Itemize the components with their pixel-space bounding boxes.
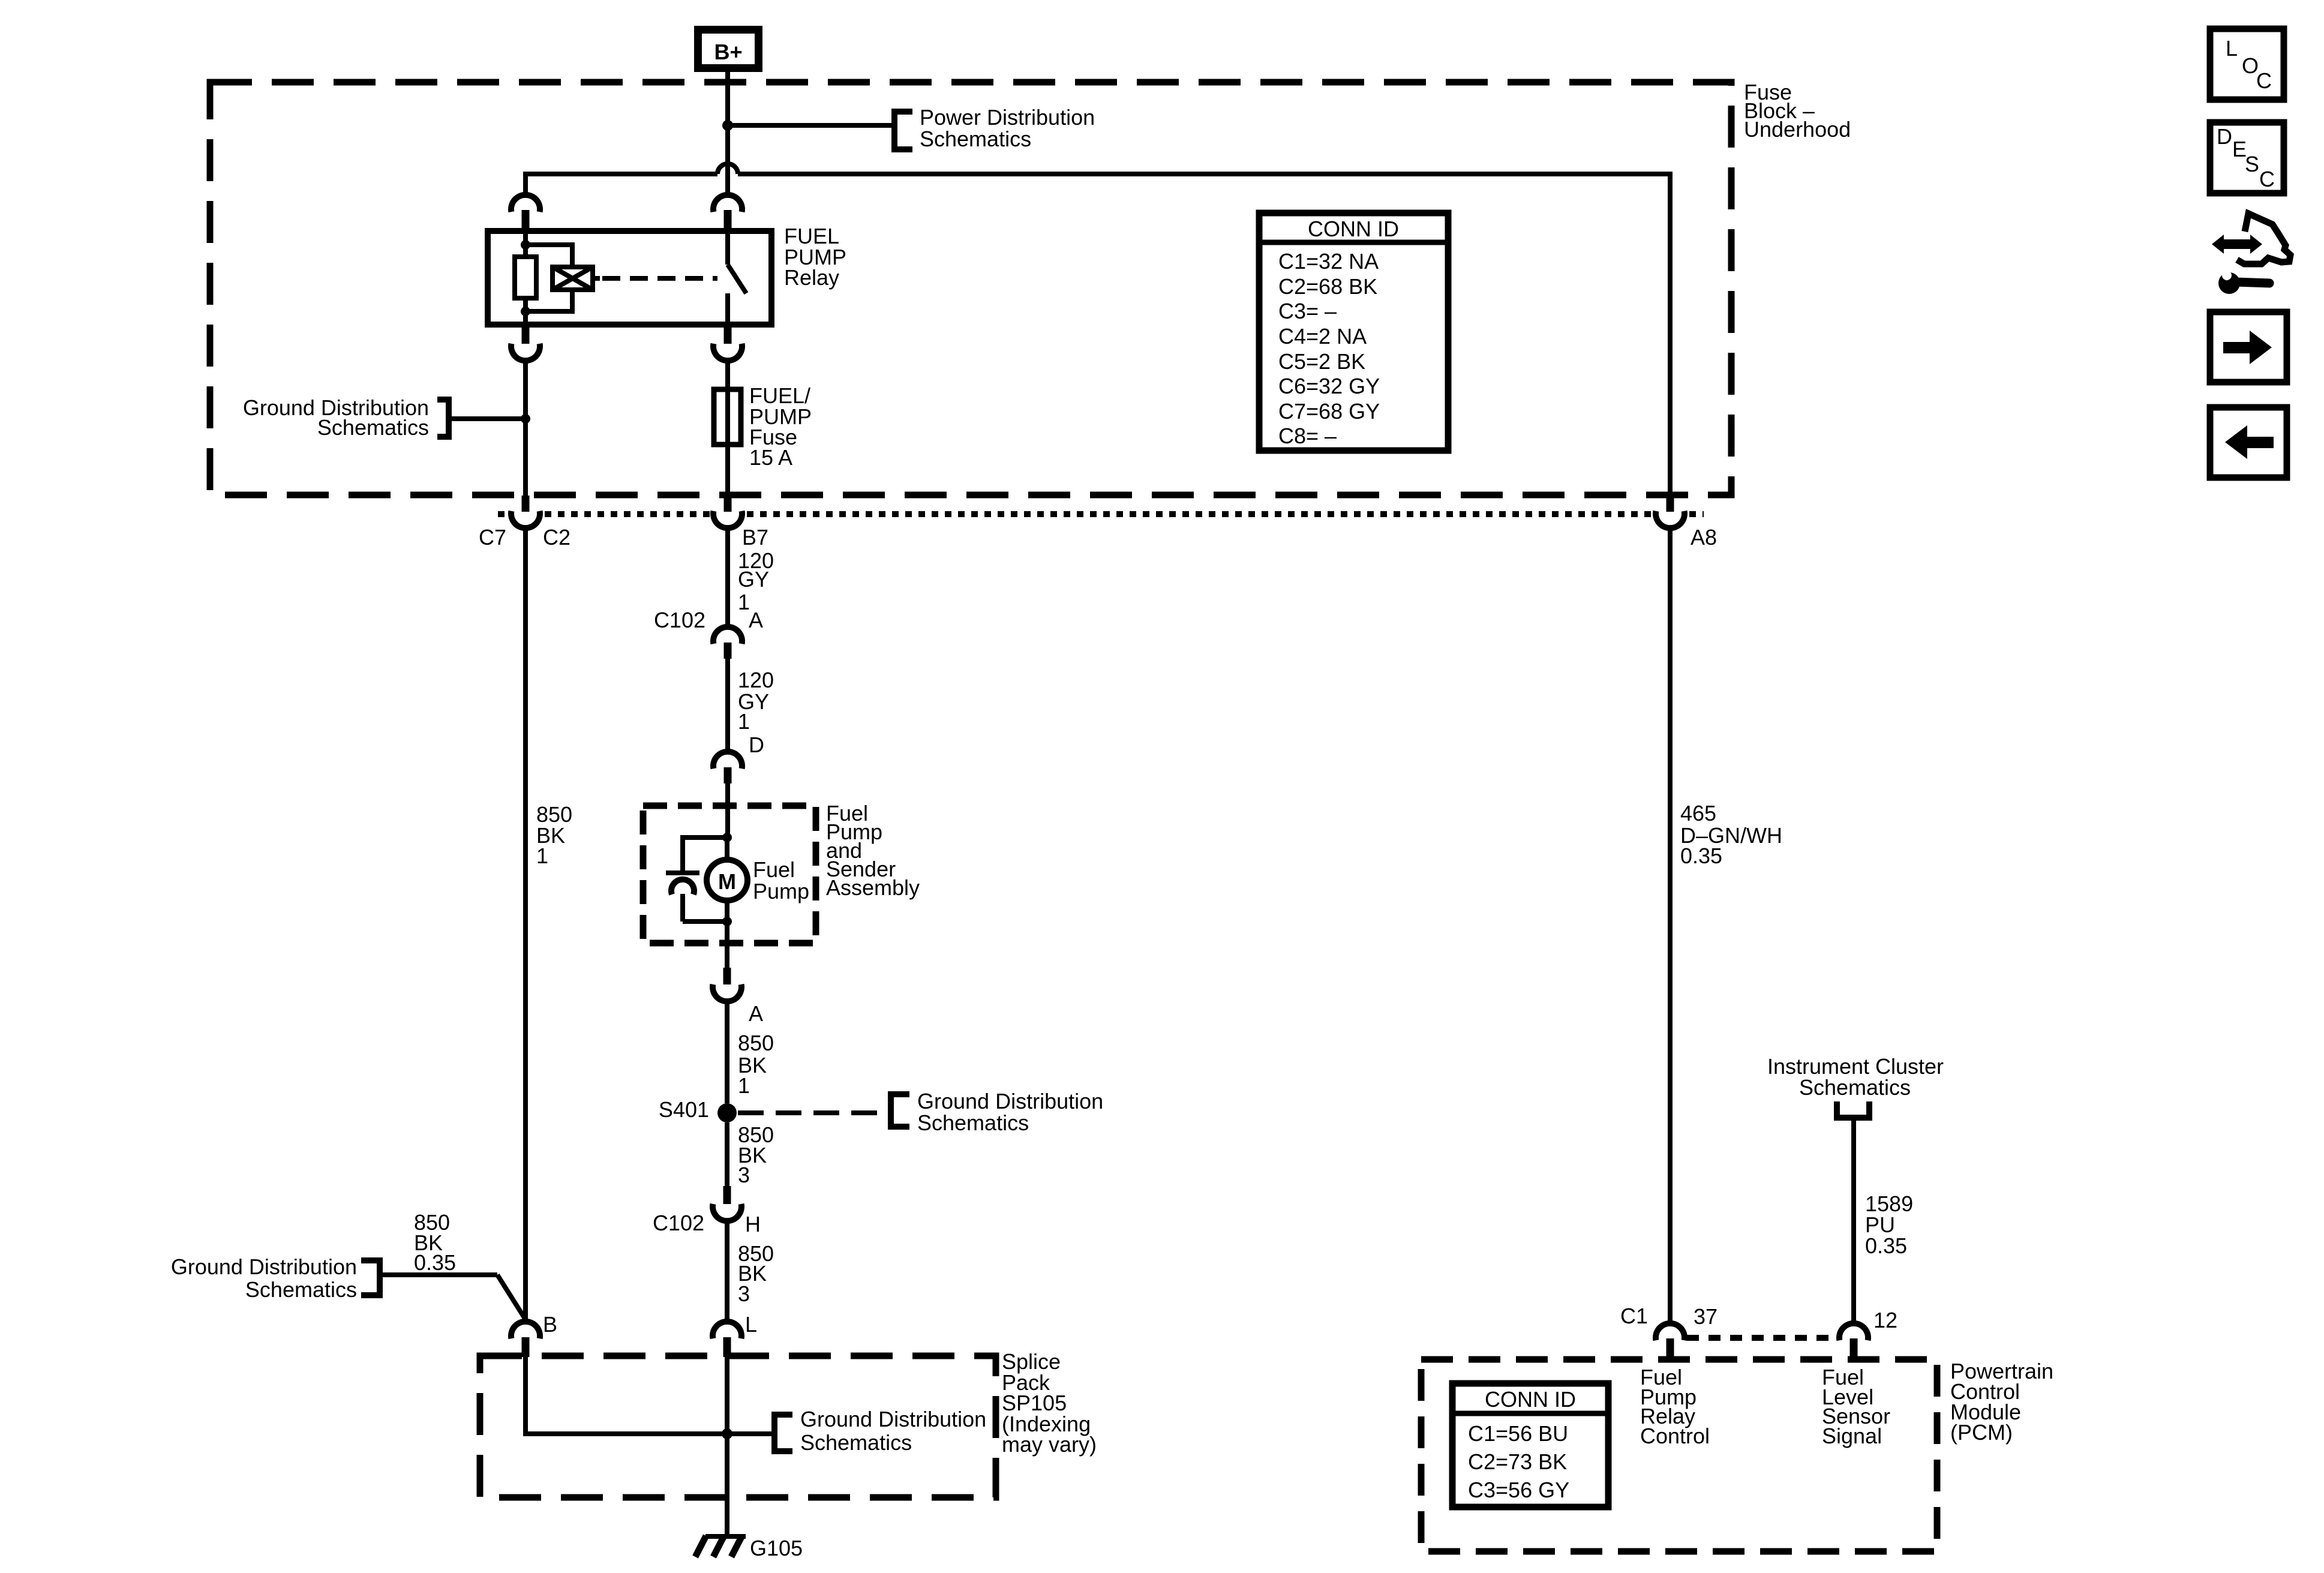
svg-text:Power Distribution: Power Distribution <box>920 105 1095 130</box>
bracket ground distribution (S401) <box>891 1094 909 1127</box>
dotted PCM connector row <box>1687 1335 1837 1341</box>
label 850 BK 0.35 <box>414 1210 456 1275</box>
svg-text:Relay: Relay <box>784 265 839 290</box>
wire B+ vertical feed <box>725 72 730 196</box>
label Powertrain Control Module (PCM) <box>1950 1359 2053 1445</box>
label Fuse Block - Underhood <box>1744 80 1851 142</box>
svg-text:0.35: 0.35 <box>1865 1233 1907 1258</box>
terminal blade relay coil pin <box>522 210 530 232</box>
connector relay pin 30 dome <box>713 195 742 212</box>
label circuit 850 BK 3 (lower) <box>738 1241 774 1306</box>
wire relay pin 87 to fuse <box>725 360 730 389</box>
svg-text:3: 3 <box>738 1163 750 1187</box>
icon back arrow box <box>2210 407 2287 478</box>
svg-text:Schematics: Schematics <box>917 1110 1029 1135</box>
svg-text:C102: C102 <box>653 1211 704 1235</box>
fuse block underhood dashed box <box>210 82 1731 495</box>
battery feed B+ terminal <box>694 26 762 72</box>
node splice pack junction <box>722 1428 732 1439</box>
svg-text:Assembly: Assembly <box>826 875 920 900</box>
bracket power distribution <box>894 112 912 149</box>
terminal blade C102 pin H <box>723 1186 731 1204</box>
terminal blade B7 <box>724 496 732 512</box>
connector cup relay pin 87 <box>713 344 742 361</box>
wire 850 BK 3 S401 to C102 H <box>725 1122 729 1186</box>
ground symbol G105 <box>695 1536 746 1557</box>
svg-text:C2=73 BK: C2=73 BK <box>1468 1449 1567 1474</box>
svg-text:H: H <box>745 1212 761 1236</box>
svg-text:B+: B+ <box>714 40 742 64</box>
terminal blade PCM pin 12 <box>1850 1338 1858 1359</box>
svg-text:C2: C2 <box>543 525 571 550</box>
terminal blade relay pin 87 bottom <box>724 325 732 344</box>
label circuit 850 BK 1 <box>738 1031 774 1098</box>
svg-text:C7: C7 <box>479 525 506 550</box>
terminal blade A8 <box>1667 496 1674 512</box>
label Ground Distribution Schematics (fuse block) <box>243 395 429 440</box>
svg-text:C102: C102 <box>654 608 705 632</box>
wire relay coil feed to PCM A8 (horizontal, hops over B+ wire) <box>523 164 1673 496</box>
wire splice pack B branch <box>523 1357 774 1436</box>
label FUEL PUMP Relay <box>784 224 846 290</box>
wire 120 GY 1 from B7 to C102 A <box>725 528 730 627</box>
wire splice pack to ground G105 <box>725 1434 729 1537</box>
connector cup pump pin A <box>713 984 741 1001</box>
svg-text:C3= –: C3= – <box>1278 299 1337 323</box>
node coil bottom <box>521 307 530 316</box>
label FUEL/PUMP Fuse 15 A <box>749 383 812 470</box>
label Ground Distribution Schematics (S401) <box>917 1089 1103 1135</box>
svg-text:Schematics: Schematics <box>920 127 1031 151</box>
svg-text:Signal: Signal <box>1822 1424 1882 1448</box>
svg-text:D: D <box>2217 124 2232 149</box>
wire to ground distribution bracket <box>449 416 526 421</box>
svg-text:C3=56 GY: C3=56 GY <box>1468 1478 1569 1502</box>
terminal blade C102 pin A <box>724 643 732 659</box>
svg-text:37: 37 <box>1694 1304 1718 1329</box>
relay solenoid winding symbol <box>526 245 600 311</box>
relay FUEL PUMP Relay box <box>488 231 771 325</box>
svg-text:C: C <box>2259 167 2275 191</box>
svg-text:1: 1 <box>536 843 548 868</box>
connector cup B7 <box>713 511 742 528</box>
bracket instrument cluster <box>1837 1101 1869 1118</box>
svg-text:C1=32 NA: C1=32 NA <box>1278 249 1379 274</box>
svg-text:C4=2 NA: C4=2 NA <box>1278 324 1367 349</box>
svg-text:S401: S401 <box>659 1097 709 1122</box>
wire 850 BK 3 C102 to splice pack L <box>725 1221 729 1322</box>
terminal blade splice pack pin L <box>723 1337 731 1357</box>
svg-text:C6=32 GY: C6=32 GY <box>1278 374 1380 398</box>
svg-text:Underhood: Underhood <box>1744 117 1851 142</box>
svg-text:L: L <box>745 1312 757 1337</box>
svg-text:may vary): may vary) <box>1002 1432 1097 1457</box>
svg-text:CONN ID: CONN ID <box>1485 1387 1576 1412</box>
connector cup C7/C2 <box>511 511 540 528</box>
svg-text:CONN ID: CONN ID <box>1308 217 1399 241</box>
svg-text:A: A <box>749 608 763 632</box>
relay switch contacts <box>728 234 746 325</box>
label Fuel Pump Relay Control <box>1640 1365 1710 1448</box>
svg-text:C1=56 BU: C1=56 BU <box>1468 1421 1568 1446</box>
connector dome PCM pin 37 <box>1656 1323 1685 1340</box>
bracket ground distribution (splice pack) <box>774 1415 792 1451</box>
label Power Distribution Schematics <box>920 105 1095 151</box>
label Fuel Pump <box>753 857 809 903</box>
PCM dashed box <box>1421 1359 1937 1551</box>
bracket ground distribution (lower left) <box>361 1260 380 1295</box>
svg-text:465: 465 <box>1680 801 1716 825</box>
node pump bottom <box>722 917 732 926</box>
svg-text:1: 1 <box>738 709 750 734</box>
svg-text:Fuel: Fuel <box>753 857 795 882</box>
label Fuel Pump and Sender Assembly <box>826 801 920 900</box>
node pump top <box>722 833 732 842</box>
svg-text:B7: B7 <box>742 525 768 550</box>
svg-text:0.35: 0.35 <box>1680 843 1722 868</box>
table CONN ID (PCM) <box>1452 1383 1608 1507</box>
svg-text:12: 12 <box>1873 1308 1897 1332</box>
svg-text:M: M <box>718 869 736 894</box>
svg-text:S: S <box>2245 152 2259 176</box>
wire 120 GY 1 from C102 to pump pin D <box>725 659 730 752</box>
label Ground Distribution Schematics (lower left) <box>171 1254 357 1302</box>
svg-text:L: L <box>2226 36 2238 61</box>
svg-text:D: D <box>749 733 764 757</box>
svg-text:B: B <box>543 1312 557 1337</box>
svg-text:C: C <box>2256 68 2272 93</box>
svg-text:C1: C1 <box>1620 1304 1648 1328</box>
svg-text:G105: G105 <box>750 1536 803 1560</box>
terminal blade C7 <box>522 496 530 512</box>
icon repair information (panel outline, double arrow, wrench) <box>2212 214 2290 294</box>
dashed wire S401 to ground distribution <box>738 1110 888 1115</box>
node ground distribution tap <box>521 414 530 424</box>
wire splice pack L branch <box>725 1357 729 1434</box>
connector cup C102 pin H <box>713 1204 741 1221</box>
svg-text:Schematics: Schematics <box>317 415 429 440</box>
wire fuse to B7 <box>725 445 730 496</box>
dashed actuation link <box>602 276 717 281</box>
wire 850 BK 1 pump to S401 <box>725 1001 729 1103</box>
svg-text:Schematics: Schematics <box>245 1277 357 1302</box>
fuse FUEL/PUMP 15A <box>714 389 741 445</box>
terminal blade splice pack pin B <box>522 1337 530 1357</box>
svg-text:(PCM): (PCM) <box>1950 1420 2013 1445</box>
svg-text:Ground Distribution: Ground Distribution <box>800 1407 986 1431</box>
svg-text:Schematics: Schematics <box>800 1430 912 1455</box>
svg-text:A8: A8 <box>1691 525 1717 550</box>
svg-text:C7=68 GY: C7=68 GY <box>1278 399 1380 424</box>
label Fuel Level Sensor Signal <box>1822 1365 1890 1448</box>
table CONN ID (fuse block) <box>1259 213 1448 451</box>
svg-text:3: 3 <box>738 1281 750 1306</box>
wire pump pin D into assembly <box>725 784 730 835</box>
svg-text:Control: Control <box>1640 1424 1710 1448</box>
label Ground Distribution Schematics (splice pack) <box>800 1407 986 1455</box>
connector relay pin 85 (coil) dome <box>511 195 540 212</box>
svg-text:Ground Distribution: Ground Distribution <box>171 1254 357 1279</box>
wire to power distribution schematics <box>728 123 892 128</box>
svg-text:A: A <box>749 1001 763 1026</box>
connector dome splice pack pin L <box>713 1322 741 1338</box>
label Splice Pack SP105 <box>1002 1349 1097 1457</box>
svg-text:C8= –: C8= – <box>1278 424 1337 448</box>
svg-text:0.35: 0.35 <box>414 1250 456 1275</box>
terminal blade PCM pin 37 <box>1667 1338 1674 1359</box>
svg-text:1: 1 <box>738 1073 750 1098</box>
check valve bypass branch <box>666 837 727 921</box>
svg-text:Ground Distribution: Ground Distribution <box>917 1089 1103 1113</box>
svg-text:GY: GY <box>738 567 769 592</box>
label circuit 120 GY 1 (upper) <box>738 548 774 614</box>
svg-text:C5=2 BK: C5=2 BK <box>1278 349 1365 374</box>
svg-text:120: 120 <box>738 668 774 692</box>
connector cup relay pin 86 <box>511 344 540 361</box>
connector dome pump pin D <box>713 752 742 769</box>
svg-text:Schematics: Schematics <box>1799 1075 1911 1100</box>
connector dome C102 pin A <box>713 627 742 644</box>
motor M fuel pump <box>707 837 747 921</box>
wire 850 BK 1 left column C2 to splice pack B <box>523 528 528 1322</box>
svg-text:15 A: 15 A <box>749 445 792 470</box>
bracket ground distribution (fuse block) <box>437 400 449 437</box>
wire 1589 PU 0.35 to PCM 12 <box>1851 1121 1856 1323</box>
fuel pump and sender assembly dashed box <box>643 806 816 943</box>
node splice to power distribution <box>722 120 733 131</box>
label circuit 120 GY 1 (lower) <box>738 668 774 734</box>
splice S401 <box>717 1103 737 1122</box>
connector dome splice pack pin B <box>511 1322 540 1338</box>
wire 850 BK 0.35 to splice pack B <box>383 1275 526 1320</box>
icon DESC box <box>2210 122 2284 193</box>
relay coil resistor <box>515 234 536 325</box>
label circuit 465 D-GN/WH 0.35 <box>1680 801 1782 868</box>
label circuit 850 BK 3 (upper) <box>738 1122 774 1187</box>
terminal blade relay pin 30 <box>724 210 732 232</box>
terminal blade pump pin A <box>723 968 731 984</box>
splice pack SP105 dashed box <box>480 1356 996 1497</box>
dotted in-line connector row <box>498 511 1704 517</box>
label Instrument Cluster Schematics <box>1767 1054 1944 1100</box>
connector dome PCM pin 12 <box>1839 1323 1868 1340</box>
svg-text:C2=68 BK: C2=68 BK <box>1278 274 1377 299</box>
node coil top <box>521 240 530 250</box>
terminal blade pump pin D <box>724 767 732 784</box>
wire relay pin 86 to C7 <box>523 360 528 496</box>
icon LOC box <box>2210 29 2284 100</box>
label circuit 1589 PU 0.35 <box>1865 1191 1913 1258</box>
wire 465 D-GN/WH 0.35 A8 to PCM C1-37 <box>1668 528 1673 1323</box>
svg-text:Pump: Pump <box>753 879 809 903</box>
terminal blade relay pin 86 bottom <box>522 325 530 344</box>
label 850 BK 1 (left column) <box>536 802 572 868</box>
icon forward arrow box <box>2210 312 2287 382</box>
svg-text:850: 850 <box>738 1031 774 1055</box>
connector cup A8 <box>1656 511 1685 528</box>
wire pump to pin A <box>725 921 729 968</box>
